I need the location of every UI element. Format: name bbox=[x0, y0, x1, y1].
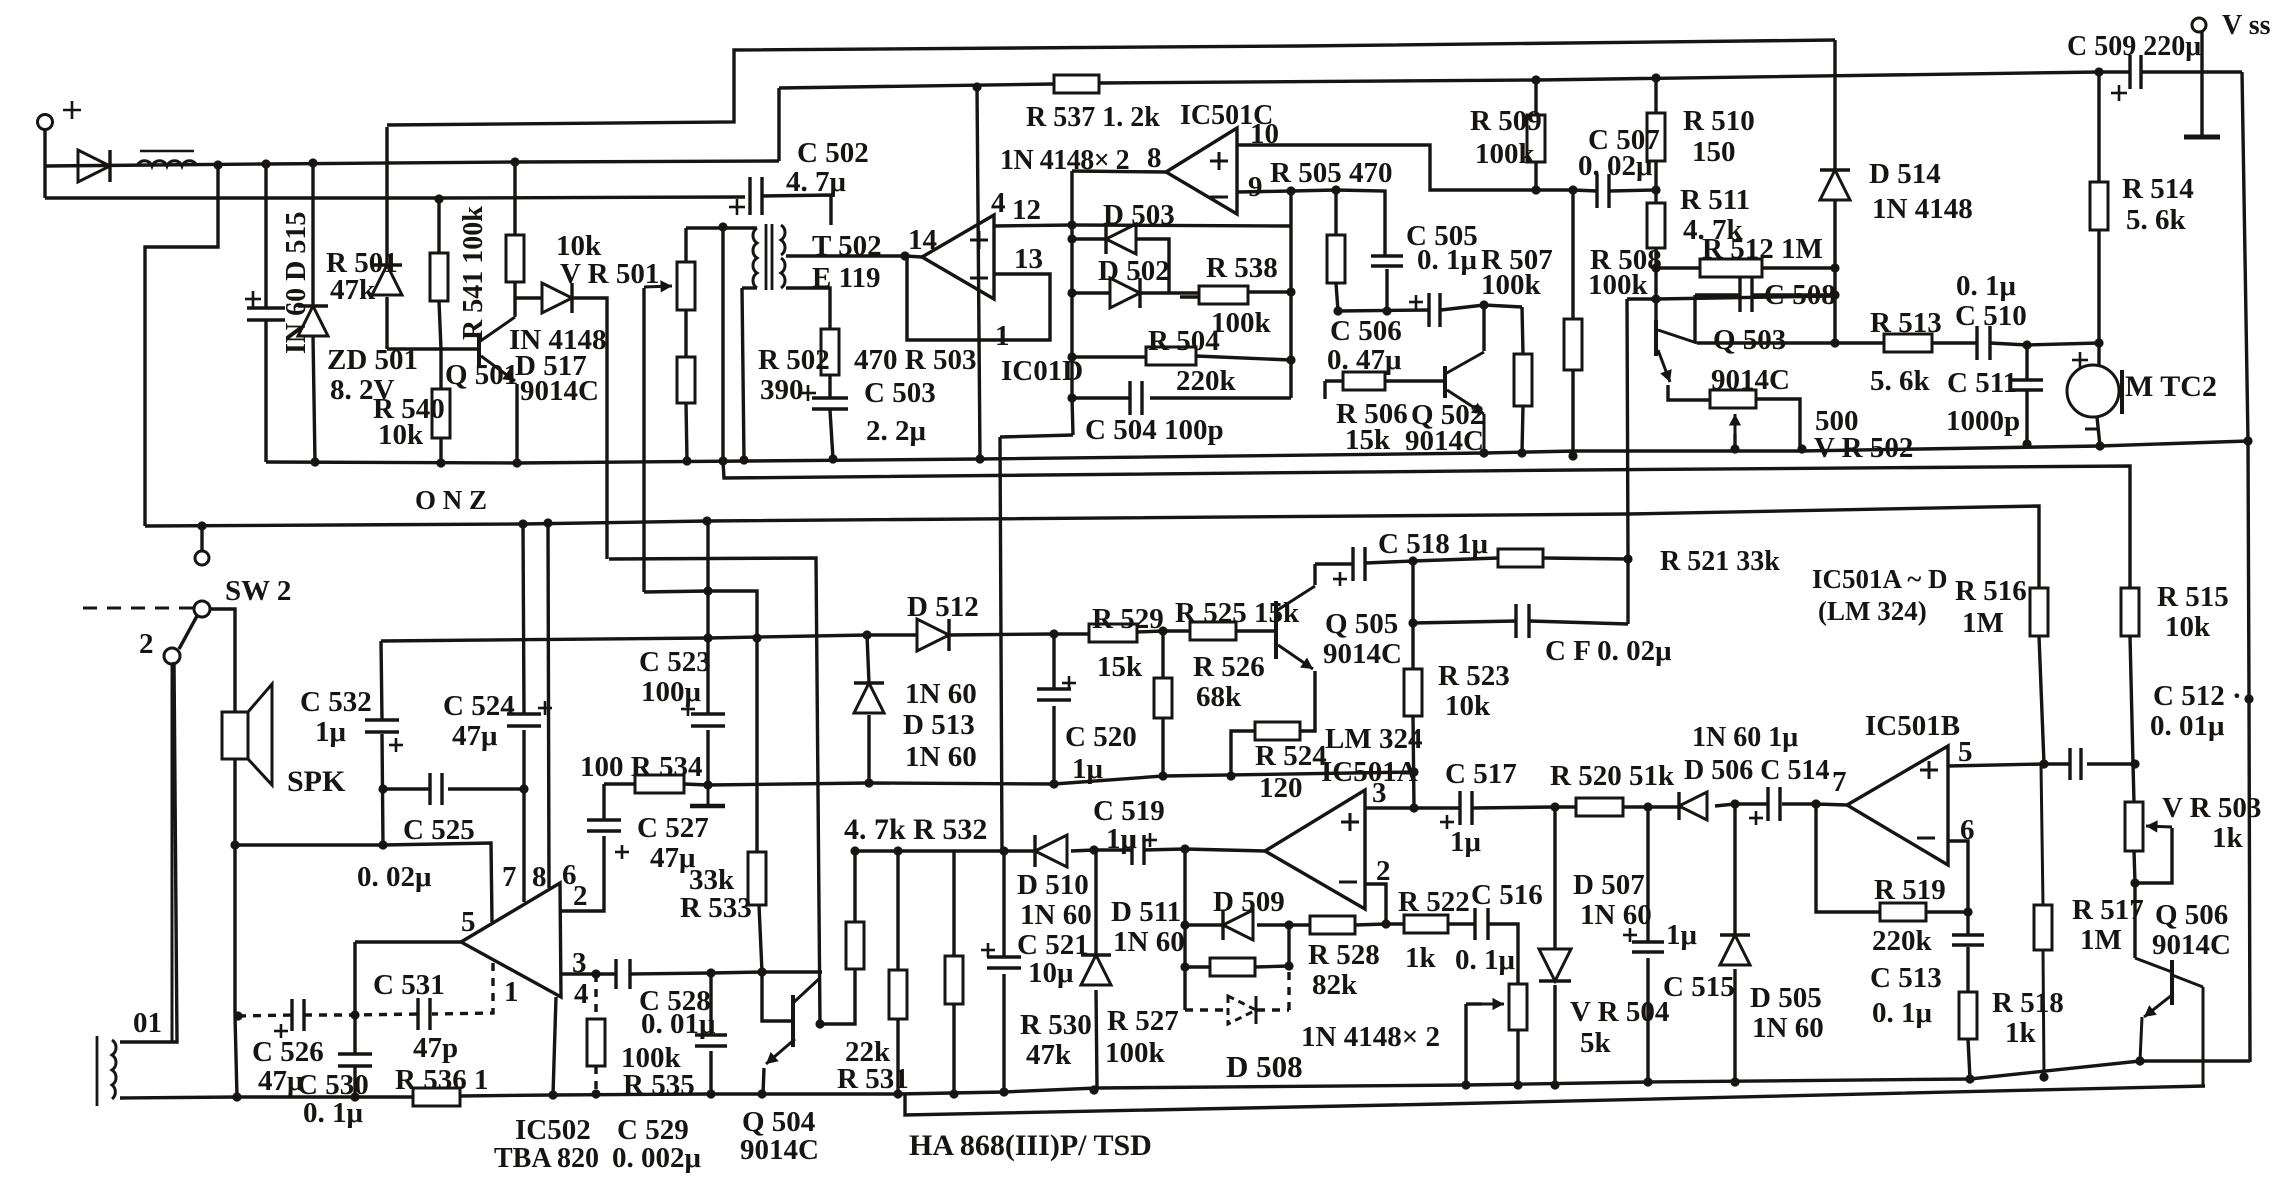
svg-text:IC501A ~ D: IC501A ~ D bbox=[1812, 564, 1948, 594]
svg-text:R 529: R 529 bbox=[1092, 603, 1164, 635]
resistor R532 4.7k body bbox=[846, 922, 864, 969]
svg-text:3: 3 bbox=[572, 947, 587, 979]
svg-text:D 510: D 510 bbox=[1017, 869, 1089, 901]
resistor R527 100k body (parallel) bbox=[1210, 958, 1255, 976]
potentiometer VR501 10k body bbox=[677, 262, 695, 310]
inductor input choke bbox=[137, 161, 197, 166]
svg-text:4. 7μ: 4. 7μ bbox=[786, 166, 847, 198]
wire IC501D feedback box bbox=[907, 257, 1050, 340]
wire D512 net y=636 (speaker box top) bbox=[381, 635, 917, 641]
svg-text:4. 7k R 532: 4. 7k R 532 bbox=[844, 813, 987, 846]
wire pin5 net IC501B bbox=[1948, 764, 2070, 766]
svg-text:1: 1 bbox=[995, 320, 1010, 352]
wire right border bbox=[2242, 72, 2250, 1062]
svg-text:01: 01 bbox=[133, 1007, 162, 1039]
resistor R530 47k body bbox=[945, 956, 963, 1004]
svg-text:47k: 47k bbox=[1026, 1039, 1072, 1071]
svg-text:V R 502: V R 502 bbox=[1814, 432, 1913, 464]
wire C502 link to T502 bbox=[762, 195, 831, 225]
svg-text:C 512 ·: C 512 · bbox=[2153, 680, 2242, 712]
resistor R507 100k body bbox=[1514, 354, 1532, 406]
wire R509 riser bbox=[1534, 80, 1537, 115]
svg-text:R 536 1: R 536 1 bbox=[395, 1064, 488, 1096]
wire R532 top net y=851 bbox=[855, 849, 1037, 852]
wire pin3 TBA net y=973 bbox=[560, 972, 616, 975]
wire R505 divider riser bbox=[1334, 190, 1337, 235]
wire Q501 emitter drop bbox=[515, 384, 518, 463]
wire Q504 base stub bbox=[762, 972, 793, 1021]
diode D509 bbox=[1223, 910, 1253, 940]
wire Q502 base from R506 bbox=[1325, 379, 1343, 382]
svg-text:10k: 10k bbox=[378, 419, 424, 451]
svg-text:R 524: R 524 bbox=[1255, 740, 1327, 772]
svg-text:5. 6k: 5. 6k bbox=[2126, 204, 2187, 236]
potentiometer VR504 wiper arrow bbox=[1466, 1003, 1504, 1006]
wire R540 drop bbox=[439, 349, 442, 389]
wire C515 riser bbox=[1646, 807, 1649, 942]
svg-text:0. 01μ: 0. 01μ bbox=[641, 1008, 716, 1040]
svg-text:C 511: C 511 bbox=[1947, 367, 2017, 399]
svg-text:2: 2 bbox=[139, 628, 154, 660]
wire Q503 base feed y=299 bbox=[1627, 296, 1835, 299]
ground stub below mid bus bbox=[707, 785, 710, 806]
svg-text:10μ: 10μ bbox=[1028, 957, 1074, 989]
svg-text:R 535: R 535 bbox=[623, 1069, 695, 1101]
switch SW2 pole 2 drop bbox=[171, 664, 174, 1042]
svg-text:1μ: 1μ bbox=[1072, 753, 1104, 785]
svg-text:0. 47μ: 0. 47μ bbox=[1327, 344, 1402, 376]
wire T502 secondary bottom to R503 bbox=[786, 288, 830, 329]
capacitor C501 input electrolytic bbox=[247, 306, 285, 309]
svg-text:R 505 470: R 505 470 bbox=[1270, 157, 1392, 189]
wire y=198 horizontal (second input rail) bbox=[45, 197, 745, 198]
svg-text:D 509: D 509 bbox=[1213, 886, 1285, 918]
wire D517 net y=298 bbox=[515, 296, 542, 299]
capacitor C528 0.01u (plates on pin3 wire) bbox=[614, 959, 617, 989]
svg-text:0. 1μ: 0. 1μ bbox=[1455, 944, 1516, 976]
wire Q504 emitter drop bbox=[763, 1068, 764, 1094]
svg-text:R 512 1M: R 512 1M bbox=[1702, 233, 1823, 265]
diode input rectifier bbox=[78, 150, 110, 182]
wire R510 riser bbox=[1654, 78, 1657, 113]
wire y=164 horizontal from input to C502 riser bbox=[45, 161, 779, 166]
transistor Q503 9014C bbox=[1654, 320, 1658, 356]
resistor R538 100k bbox=[1199, 286, 1248, 304]
svg-text:R 531: R 531 bbox=[837, 1063, 909, 1095]
wire riser x=1289 bbox=[1287, 925, 1290, 966]
svg-text:13: 13 bbox=[1014, 243, 1043, 275]
svg-text:7: 7 bbox=[502, 861, 517, 893]
wire y=559 link with vertical to Q504 collector bbox=[609, 558, 820, 1024]
svg-text:2: 2 bbox=[573, 880, 588, 912]
svg-text:R 538: R 538 bbox=[1206, 252, 1278, 284]
op-amp IC501A bbox=[1265, 790, 1365, 909]
potentiometer VR501 wiper arrow bbox=[644, 286, 672, 287]
svg-text:IC501B: IC501B bbox=[1865, 710, 1960, 742]
svg-text:R 533: R 533 bbox=[680, 892, 752, 924]
capacitor C511 1000p bbox=[2011, 378, 2043, 381]
svg-text:0. 02μ: 0. 02μ bbox=[357, 861, 432, 893]
wire pin12 net IC501D bbox=[994, 225, 1291, 226]
transistor Q502 9014C bbox=[1443, 366, 1447, 398]
wire riser x=779 joining Vss bus bbox=[777, 88, 780, 161]
wire C519 to IC501A apex bbox=[1143, 849, 1265, 851]
svg-text:E 119: E 119 bbox=[812, 262, 881, 294]
wire Q501 base net y=349 bbox=[387, 347, 479, 350]
wire pin7 riser x=524 bbox=[523, 524, 524, 714]
svg-text:C 515: C 515 bbox=[1663, 971, 1735, 1003]
svg-text:100k: 100k bbox=[1481, 269, 1542, 301]
wire input cap riser x=266 bbox=[264, 164, 267, 308]
svg-text:100k: 100k bbox=[1211, 307, 1272, 339]
svg-text:SPK: SPK bbox=[287, 765, 346, 798]
svg-text:220k: 220k bbox=[1872, 925, 1933, 957]
wire C520 riser bbox=[1052, 634, 1055, 689]
wire VR504 bottom bbox=[1516, 1030, 1519, 1085]
svg-text:IN 60 D 515: IN 60 D 515 bbox=[281, 212, 312, 354]
svg-text:12: 12 bbox=[1012, 194, 1041, 226]
svg-text:100k: 100k bbox=[1588, 269, 1649, 301]
wire ground rail 1 (ONZ box bottom, long) bbox=[266, 441, 2248, 463]
capacitor C520 1u bbox=[1037, 687, 1071, 690]
svg-text:470 R 503: 470 R 503 bbox=[854, 344, 976, 376]
wire pin10 net IC501C to R509 node bbox=[1237, 145, 1597, 191]
svg-text:Q 505: Q 505 bbox=[1325, 608, 1398, 640]
wire R517 riser bbox=[2041, 764, 2043, 905]
svg-text:7: 7 bbox=[1832, 766, 1847, 798]
svg-text:47μ: 47μ bbox=[452, 720, 498, 752]
wire R516 to pin5 node bbox=[2039, 636, 2044, 764]
wire CF net y=623 bbox=[1413, 621, 1516, 623]
wire T502 secondary tap to IC501D bbox=[786, 256, 922, 257]
svg-text:C 516: C 516 bbox=[1471, 879, 1543, 911]
wire R533 lower to pin3 net bbox=[759, 905, 762, 972]
wire TBA bottom-left drop x=553 bbox=[553, 997, 556, 1095]
svg-text:R 517: R 517 bbox=[2072, 894, 2144, 926]
svg-text:1k: 1k bbox=[2005, 1017, 2037, 1049]
svg-text:1N 60: 1N 60 bbox=[1580, 899, 1652, 931]
wire D507 riser bbox=[1553, 807, 1556, 949]
diode D507 1N60 bbox=[1539, 949, 1571, 981]
svg-text:R 537 1. 2k: R 537 1. 2k bbox=[1026, 102, 1160, 133]
diode D505 1N60 bbox=[1720, 935, 1750, 965]
transistor Q501 9014C bbox=[477, 334, 481, 366]
svg-text:D 508: D 508 bbox=[1226, 1049, 1303, 1084]
wire input coil 01 to switch bbox=[120, 662, 177, 1042]
transistor Q506 9014C bbox=[2135, 958, 2172, 972]
wire C505 riser lower bbox=[1385, 269, 1388, 311]
capacitor C518 1u bbox=[1351, 547, 1354, 581]
svg-text:0. 1μ: 0. 1μ bbox=[1872, 997, 1933, 1029]
svg-text:1μ: 1μ bbox=[315, 716, 347, 748]
svg-text:1N 60: 1N 60 bbox=[905, 678, 977, 710]
wire C530 drop x=355 bbox=[353, 942, 356, 1054]
resistor R529 15k body bbox=[1089, 624, 1137, 642]
svg-text:C 524: C 524 bbox=[443, 690, 515, 722]
wire C504 box vertical x=1000 bbox=[1000, 437, 1002, 851]
wire pin5 feed TBA bbox=[235, 843, 492, 922]
svg-text:R 526: R 526 bbox=[1193, 651, 1265, 683]
wire C518 R521 net y=560 bbox=[1315, 562, 1353, 565]
wire motor to rail bbox=[2097, 417, 2100, 446]
svg-text:9014C: 9014C bbox=[1323, 638, 1402, 670]
wire pin1 dashed feedback to C531 net bbox=[432, 963, 493, 1014]
resistor R526 68k body bbox=[1154, 678, 1172, 718]
svg-text:T 502: T 502 bbox=[812, 230, 882, 262]
resistor R519 220k body bbox=[1880, 903, 1926, 921]
svg-text:V R 504: V R 504 bbox=[1570, 996, 1669, 1028]
transformer T502 E119 left winding bbox=[753, 228, 757, 288]
resistor R531 22k body bbox=[889, 970, 907, 1019]
svg-text:10: 10 bbox=[1250, 118, 1279, 150]
svg-text:R 510: R 510 bbox=[1683, 105, 1755, 137]
svg-text:C 506: C 506 bbox=[1330, 315, 1402, 347]
wire T502 primary top y=228 bbox=[686, 226, 757, 229]
svg-text:R 541 100k: R 541 100k bbox=[458, 206, 489, 340]
wire C504 box line bbox=[1000, 435, 1073, 437]
svg-text:C 526: C 526 bbox=[252, 1036, 324, 1068]
capacitor C507 0.02u bbox=[1595, 174, 1598, 208]
capacitor C530 0.1u bbox=[338, 1052, 372, 1055]
resistor R537 1.2k inline bbox=[1054, 75, 1099, 93]
wire R515 to VR503 chain bbox=[2130, 636, 2134, 802]
svg-text:Q 503: Q 503 bbox=[1713, 324, 1786, 356]
svg-text:C 503: C 503 bbox=[864, 377, 936, 409]
terminal Vss bbox=[2192, 18, 2206, 32]
diode D513 1N60 bbox=[854, 683, 884, 713]
speaker SPK bbox=[222, 712, 248, 759]
wire pin8 riser x=549 bbox=[548, 523, 549, 888]
junction dots bbox=[261, 159, 270, 168]
svg-text:100 R 534: 100 R 534 bbox=[580, 751, 702, 783]
capacitor C502 4.7u bbox=[748, 177, 751, 215]
svg-text:R 514: R 514 bbox=[2122, 173, 2194, 205]
svg-text:1μ: 1μ bbox=[1106, 823, 1138, 855]
resistor R517 1M body bbox=[2034, 905, 2052, 950]
svg-text:R 519: R 519 bbox=[1874, 874, 1946, 906]
wire C513 R518 chain bbox=[1966, 912, 1969, 935]
svg-text:0. 002μ: 0. 002μ bbox=[612, 1142, 702, 1174]
wire ONZ box left side bbox=[145, 165, 218, 526]
svg-text:R 523: R 523 bbox=[1438, 660, 1510, 692]
resistor R508 100k body bbox=[1564, 319, 1582, 370]
svg-text:R 527: R 527 bbox=[1107, 1005, 1179, 1037]
svg-text:1μ: 1μ bbox=[1450, 826, 1482, 858]
capacitor C532 1u bbox=[365, 718, 399, 721]
svg-text:1M: 1M bbox=[1962, 607, 2004, 639]
svg-text:6: 6 bbox=[1960, 814, 1975, 846]
svg-text:R 511: R 511 bbox=[1680, 184, 1750, 216]
wire Vss terminal drop and ground bbox=[2200, 32, 2203, 136]
diode D512 bbox=[917, 619, 949, 651]
potentiometer VR504 5k body bbox=[1509, 984, 1527, 1030]
wire center tall vertical x=1627 bbox=[1627, 299, 1628, 624]
wire C528 drop bbox=[709, 973, 712, 1035]
svg-text:9014C: 9014C bbox=[520, 375, 599, 407]
svg-text:V R 503: V R 503 bbox=[2162, 792, 2261, 824]
wire ONZ D515 riser x=313 bbox=[311, 163, 314, 306]
svg-text:100μ: 100μ bbox=[641, 676, 702, 708]
svg-text:5: 5 bbox=[1958, 736, 1973, 768]
capacitor C523 100u bbox=[691, 712, 725, 715]
wire Q502 collector riser bbox=[1482, 305, 1485, 351]
svg-text:HA 868(III)P/ TSD: HA 868(III)P/ TSD bbox=[909, 1129, 1152, 1162]
svg-text:(LM 324): (LM 324) bbox=[1818, 596, 1927, 626]
svg-text:0. 1μ: 0. 1μ bbox=[1956, 270, 2017, 302]
svg-text:5k: 5k bbox=[1580, 1027, 1612, 1059]
resistor R521 33k body bbox=[1498, 549, 1543, 567]
transistor Q505 9014C bbox=[1274, 601, 1278, 659]
wire speaker feed from SW2 bbox=[210, 609, 235, 712]
wire R501 riser x=439 bbox=[437, 199, 440, 253]
wire T502 primary bottom drop x=742 bbox=[742, 286, 757, 289]
svg-text:LM 324: LM 324 bbox=[1325, 723, 1422, 755]
wire C523 riser x=708 bbox=[706, 521, 709, 714]
capacitor C508 bbox=[1738, 278, 1741, 312]
svg-text:1N 60: 1N 60 bbox=[1752, 1012, 1824, 1044]
capacitor C519 1u bbox=[1130, 835, 1133, 865]
wire D510 to C519 link bbox=[1071, 850, 1132, 851]
svg-text:R 516: R 516 bbox=[1955, 575, 2027, 607]
wire R514 riser x=2099 bbox=[2097, 72, 2100, 182]
wire D511 riser bbox=[1094, 851, 1097, 955]
wire VR503 wiper loop bbox=[2135, 828, 2172, 883]
capacitor C528 body on drop bbox=[695, 1033, 727, 1036]
wire R503 to C503 bbox=[828, 375, 831, 398]
svg-text:R 528: R 528 bbox=[1308, 939, 1380, 971]
svg-text:14: 14 bbox=[908, 224, 937, 256]
wire D505 riser bbox=[1733, 804, 1736, 935]
capacitor C515 1u bbox=[1632, 940, 1664, 943]
svg-text:47p: 47p bbox=[413, 1032, 458, 1064]
wire input terminal drop to second rail bbox=[43, 166, 46, 198]
diode D508 (dashed, IN4148x2) bbox=[1228, 996, 1256, 1024]
resistor R535 100k body bbox=[587, 1019, 605, 1066]
resistor R524 120 body bbox=[1255, 722, 1300, 740]
svg-text:47k: 47k bbox=[330, 274, 376, 306]
wire Q503 emitter to VR502 bbox=[1668, 385, 1710, 400]
svg-text:1N 60: 1N 60 bbox=[905, 741, 977, 773]
diode D515 (IN60) bbox=[298, 306, 328, 336]
wire C508 branch bbox=[1695, 293, 1740, 296]
svg-text:C 510: C 510 bbox=[1955, 300, 2027, 332]
wire VR504 wiper branch bbox=[1466, 1002, 1482, 1005]
svg-text:SW 2: SW 2 bbox=[225, 575, 291, 607]
capacitor C524 47u bbox=[507, 712, 541, 715]
diode D502 bbox=[1110, 278, 1140, 308]
wire C511 stub bbox=[2025, 345, 2028, 380]
resistor R509 100k body bbox=[1527, 115, 1545, 162]
capacitor C509 220u bbox=[2128, 55, 2131, 89]
svg-text:C 531: C 531 bbox=[373, 969, 445, 1001]
svg-text:4: 4 bbox=[574, 978, 589, 1010]
wire pin9 net IC501C to C505 riser bbox=[1237, 190, 1385, 256]
wire R504 branch bbox=[1072, 355, 1146, 358]
svg-text:1μ: 1μ bbox=[1666, 919, 1698, 951]
resistor R525 15k body bbox=[1190, 622, 1236, 640]
resistor R501 47k bbox=[430, 253, 448, 301]
svg-text:100k: 100k bbox=[1105, 1037, 1166, 1069]
svg-text:1N 4148× 2: 1N 4148× 2 bbox=[1301, 1021, 1440, 1053]
svg-text:150: 150 bbox=[1692, 136, 1736, 168]
resistor R512 1M body bbox=[1700, 259, 1762, 277]
svg-text:D 505: D 505 bbox=[1750, 982, 1822, 1014]
svg-text:C 504 100p: C 504 100p bbox=[1085, 414, 1224, 446]
svg-text:C 508: C 508 bbox=[1764, 279, 1836, 311]
wire pin4 riser x=977 from R537 node through IC01D to rail bbox=[977, 87, 980, 459]
motor M TC2 bbox=[2067, 365, 2119, 417]
svg-text:8: 8 bbox=[1147, 142, 1162, 174]
potentiometer VR502 wiper arrow bbox=[1734, 414, 1737, 449]
wire R530 riser bbox=[952, 852, 955, 956]
wire R507 branch bbox=[1522, 307, 1523, 354]
svg-text:10k: 10k bbox=[2165, 611, 2211, 643]
svg-text:1N 60: 1N 60 bbox=[1020, 899, 1092, 931]
wire D509 R528 net y=925 bbox=[1183, 849, 1186, 1010]
wire speaker to C525/SPK net bbox=[235, 759, 237, 1097]
op-amp IC502 TBA820 power amplifier bbox=[461, 883, 561, 997]
svg-text:68k: 68k bbox=[1196, 681, 1242, 713]
wire Q505 collector riser and emitter to R524 bbox=[1313, 564, 1316, 585]
potentiometer VR502 500 body bbox=[1710, 390, 1756, 408]
resistor R503 470 bbox=[821, 329, 839, 375]
wire SW2 stub from rail 3 bbox=[200, 526, 203, 551]
svg-text:D 506 C 514: D 506 C 514 bbox=[1684, 755, 1829, 786]
switch SW2 bbox=[195, 551, 209, 565]
svg-text:R 504: R 504 bbox=[1148, 325, 1220, 357]
wire VR501 chain x=686 bbox=[684, 228, 687, 262]
wire R541 riser x=515 bbox=[513, 162, 516, 235]
wire pin6 net to R519/C513 node bbox=[1948, 841, 1968, 912]
wire VR501 wiper x=644 bbox=[642, 288, 645, 592]
resistor R523 10k body bbox=[1404, 669, 1422, 716]
capacitor C512 0.01u bbox=[2068, 748, 2071, 780]
wire D508 dashed branch bbox=[1185, 1008, 1226, 1011]
resistor below VR501 bbox=[677, 357, 695, 403]
wire x=1072 vertical ladder (D503/D502/R504/C504) bbox=[1072, 171, 1166, 172]
wire C508 left lead to Q503 collector bbox=[1693, 295, 1696, 343]
capacitor C527 47u bbox=[587, 818, 621, 821]
op-amp IC501B bbox=[1847, 746, 1948, 865]
inductor 01 output transformer winding bbox=[96, 1036, 99, 1106]
wire R523 riser x=1414 bbox=[1411, 561, 1414, 669]
svg-text:0. 1μ: 0. 1μ bbox=[303, 1097, 364, 1129]
wire R522 C516 VR504 net bbox=[1448, 922, 1475, 925]
wire mid ground bus y=780 bbox=[604, 782, 635, 785]
resistor R541 100k bbox=[506, 235, 524, 282]
wire Vss bus (top power rail) bbox=[779, 84, 1054, 88]
svg-text:9: 9 bbox=[1248, 171, 1263, 203]
svg-text:R 518: R 518 bbox=[1992, 987, 2064, 1019]
wire R535 drop (dashed) bbox=[594, 974, 597, 1019]
svg-text:C 523: C 523 bbox=[639, 646, 711, 678]
resistor R533 33k body bbox=[748, 852, 766, 905]
resistor R511 4.7k body bbox=[1647, 203, 1665, 248]
resistor R534 100 body (inline mid bus) bbox=[635, 775, 684, 793]
svg-text:1k: 1k bbox=[2212, 822, 2244, 854]
wire D514 riser x=1835 bbox=[1833, 40, 1836, 170]
svg-text:IC501A: IC501A bbox=[1321, 756, 1418, 788]
svg-text:2. 2μ: 2. 2μ bbox=[866, 415, 927, 447]
svg-text:10k: 10k bbox=[1445, 690, 1491, 722]
wire riser x=723 bbox=[721, 227, 724, 461]
svg-text:9014C: 9014C bbox=[1711, 364, 1790, 396]
wire VR502 wiper to rail bbox=[1733, 434, 1736, 449]
svg-text:V R 501: V R 501 bbox=[560, 258, 659, 290]
svg-text:R 521 33k: R 521 33k bbox=[1660, 546, 1780, 577]
svg-text:C F 0. 02μ: C F 0. 02μ bbox=[1545, 635, 1672, 667]
svg-text:1: 1 bbox=[504, 976, 519, 1008]
